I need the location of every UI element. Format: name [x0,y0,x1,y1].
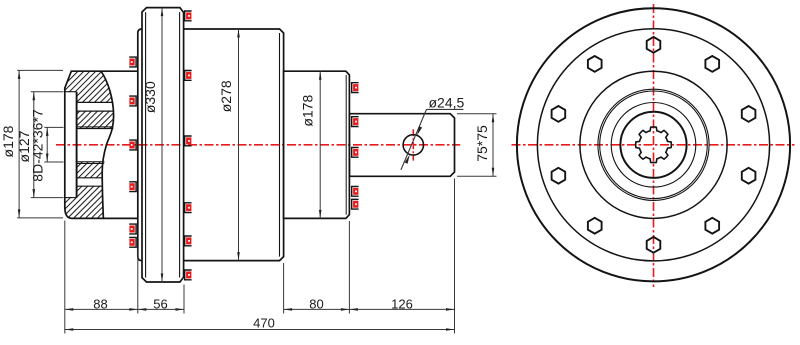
cylinder chamfer line [279,33,281,257]
flange bolt hex at 234 deg [588,218,602,234]
flange bolt hex at 54 deg [705,56,719,72]
svg-text:88: 88 [93,296,107,311]
dim o178 wheel [17,69,63,71]
spline lines bottom [77,162,105,164]
bolt (red) [353,118,358,125]
bolt (red) [186,271,191,278]
front view circle pair o135/o131 [598,89,709,200]
svg-text:80: 80 [309,296,323,311]
wheel hub section (hatched) [65,71,114,218]
bolt (red) [353,149,358,156]
dim 75*75 shaft [457,113,497,115]
svg-text:ø178: ø178 [0,125,16,157]
spline bore 8D-42*36*7 [636,127,672,163]
drum chamfer line [345,75,347,215]
dim spline 8D-42*36*7 [44,126,63,128]
bolt (red) [353,84,358,91]
web lines lower [77,178,103,186]
hub web lines [77,102,114,111]
bolt (red) [186,12,191,19]
leader o24,5 [401,109,427,169]
front view circle o178 [580,71,727,218]
dim 56 [138,308,184,310]
wheel hub outline [65,71,114,218]
flange bolt hex at 306 deg [705,218,719,234]
dim o127 bore [31,91,64,93]
flange bolt hex at 270 deg [647,237,661,253]
flange o330 [142,8,184,282]
bolt (red) [353,188,358,195]
dim 470 [65,329,455,331]
bolt (red) [186,237,191,244]
bottom extension lines [65,179,455,334]
flange bolt hex at 90 deg [647,37,661,53]
svg-text:ø178: ø178 [300,95,316,127]
svg-text:470: 470 [253,315,275,330]
dim 126 [349,308,454,310]
bolt (red) [186,204,191,211]
bore o127 bottom line [65,197,77,199]
front view outer circle o330 [517,8,790,281]
bolt (red, wheel joint) [129,59,134,66]
svg-text:ø278: ø278 [218,80,234,112]
shaft hole o24.5 [403,135,423,155]
hole centerline vertical [412,129,414,160]
bolt (red, wheel joint) [129,98,134,105]
drum o178 outline [284,71,350,218]
bore o127 edge [76,92,78,198]
centerline vertical (front view) [653,4,655,287]
svg-text:56: 56 [153,296,167,311]
flange bolt hex at 162 deg [552,106,566,122]
svg-text:8D-42*36*7: 8D-42*36*7 [29,109,45,182]
dim o278 cylinder [238,29,240,261]
bolt (red, wheel joint) [129,183,134,190]
wheel rim top face line [101,70,138,72]
flange bolt hex at 198 deg [552,168,566,184]
dim o330 flange [161,8,163,282]
drum o178 [284,71,350,218]
front view circle o80 [620,112,686,178]
bolt (red) [186,137,191,144]
shaft outline [349,114,454,177]
flange bolt hex at 18 deg [742,106,756,122]
svg-text:ø24,5: ø24,5 [429,95,465,111]
flange bolt hex at 126 deg [588,56,602,72]
svg-text:126: 126 [391,296,413,311]
svg-text:ø330: ø330 [142,81,158,113]
flange chamfer lines [145,12,147,277]
bolt (red, wheel joint) [129,142,134,149]
wheel rim bottom face line [103,217,137,219]
bolt (red) [186,72,191,79]
centerline (left view) [56,144,460,146]
dim o178 drum [319,71,321,218]
centerline horizontal (front view) [512,144,795,146]
dim 80 [284,308,350,310]
dim 88 [65,308,138,310]
bore o127 top line [65,91,77,93]
bolt (red) [353,201,358,208]
flange o330 outline [142,8,184,282]
cylinder o278 outline [138,29,284,261]
front view circle o278 [537,29,769,261]
svg-text:75*75: 75*75 [474,125,490,162]
flange bolt hex at 342 deg [742,168,756,184]
shaft 75x75 [349,114,454,177]
front view circle o103 [611,103,696,188]
bolt (red, wheel joint) [129,226,134,233]
spline lines top [77,127,114,129]
bolt (red, wheel joint) [129,239,134,246]
wheel bore white bands [64,92,77,197]
cylinder body o278 [138,29,284,261]
